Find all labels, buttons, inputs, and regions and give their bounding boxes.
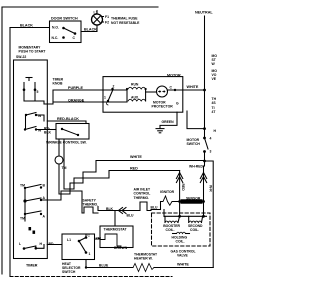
svg-text:SENSOR: SENSOR (186, 196, 201, 200)
svg-text:COIL.: COIL. (166, 228, 175, 232)
svg-text:NOT RESETABLE: NOT RESETABLE (111, 21, 140, 25)
svg-text:PROTECTOR: PROTECTOR (152, 105, 174, 109)
svg-text:5: 5 (37, 90, 39, 94)
svg-text:W: W (212, 62, 216, 66)
svg-text:RED: RED (181, 184, 185, 192)
svg-text:BLU: BLU (127, 213, 135, 217)
svg-text:BLK: BLK (44, 131, 52, 135)
svg-text:C: C (170, 86, 173, 90)
svg-text:1: 1 (104, 96, 106, 100)
svg-text:VALVE: VALVE (177, 254, 189, 258)
svg-text:3: 3 (210, 150, 212, 154)
svg-text:WHITE: WHITE (130, 155, 142, 159)
svg-text:RED: RED (130, 166, 138, 170)
svg-text:N.C.: N.C. (52, 36, 59, 40)
svg-text:L1: L1 (67, 238, 71, 242)
svg-text:VE: VE (212, 77, 217, 81)
svg-text:SWITCH: SWITCH (187, 142, 201, 146)
svg-text:PUSH TO START: PUSH TO START (19, 50, 47, 54)
svg-text:ORANGE: ORANGE (68, 98, 85, 102)
svg-text:RUN: RUN (131, 83, 139, 87)
svg-text:2: 2 (113, 85, 115, 89)
svg-text:KNOB: KNOB (53, 82, 64, 86)
svg-text:1: 1 (89, 252, 91, 256)
svg-text:THERMAL FUSE: THERMAL FUSE (111, 17, 138, 21)
svg-text:THERMOSTAT: THERMOSTAT (104, 228, 128, 232)
svg-text:THERMO.: THERMO. (134, 196, 150, 200)
svg-text:SW-22: SW-22 (16, 55, 26, 59)
svg-text:WHITE: WHITE (177, 263, 189, 267)
svg-text:L: L (19, 242, 21, 246)
svg-text:TIMER: TIMER (26, 264, 38, 268)
svg-text:AUX.: AUX. (131, 96, 139, 100)
svg-text:TM: TM (20, 184, 25, 188)
svg-text:H: H (40, 242, 43, 246)
svg-text:4: 4 (210, 137, 212, 141)
svg-text:BLK: BLK (106, 207, 114, 211)
svg-text:BLU: BLU (151, 206, 159, 210)
svg-text:TM: TM (62, 166, 67, 170)
svg-text:TM: TM (20, 217, 25, 221)
svg-text:F2: F2 (105, 21, 109, 25)
svg-text:W-R: W-R (209, 185, 213, 192)
svg-text:4S: 4S (212, 101, 217, 105)
svg-text:YEL: YEL (96, 237, 103, 241)
svg-text:L1: L1 (94, 11, 98, 15)
svg-text:PURPLE: PURPLE (68, 86, 83, 90)
svg-text:RD: RD (49, 242, 54, 246)
svg-text:A: A (43, 215, 46, 219)
svg-text:BLUE: BLUE (99, 264, 109, 268)
svg-text:NEUTRAL: NEUTRAL (195, 11, 213, 15)
svg-text:IGNITOR: IGNITOR (160, 190, 175, 194)
svg-text:THERMO.: THERMO. (83, 203, 99, 207)
svg-text:B: B (43, 184, 46, 188)
svg-text:BROWN: BROWN (114, 246, 128, 250)
svg-text:COIL.: COIL. (176, 240, 185, 244)
svg-text:SWITCH: SWITCH (62, 270, 76, 274)
svg-text:4T: 4T (212, 110, 217, 114)
svg-text:DOOR SWITCH: DOOR SWITCH (51, 17, 78, 21)
svg-text:A: A (43, 196, 46, 200)
svg-text:GREEN: GREEN (162, 120, 175, 124)
svg-text:H: H (214, 129, 217, 133)
svg-text:COIL.: COIL. (190, 228, 199, 232)
svg-text:G: G (176, 102, 179, 106)
svg-text:BLACK: BLACK (20, 24, 33, 28)
svg-text:WRINKLE CONTROL SW.: WRINKLE CONTROL SW. (46, 141, 87, 145)
svg-text:RED-BLACK: RED-BLACK (57, 117, 79, 121)
svg-text:F1: F1 (105, 15, 109, 19)
svg-text:C: C (73, 36, 76, 40)
svg-text:BLACK: BLACK (84, 28, 97, 32)
svg-text:WHITE: WHITE (187, 85, 199, 89)
svg-text:HEATER W.: HEATER W. (134, 257, 153, 261)
svg-text:MOTOR: MOTOR (167, 74, 181, 78)
svg-text:WH-RED: WH-RED (189, 164, 203, 168)
svg-text:N.O.: N.O. (52, 26, 59, 30)
